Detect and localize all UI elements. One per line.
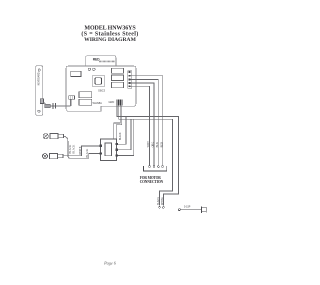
svg-text:WHITE: WHITE — [79, 146, 82, 155]
microcontroller U1 — [93, 75, 105, 87]
spark module M1 — [101, 139, 117, 161]
motor wire 1 — [131, 76, 163, 166]
connector J3 (board right) — [128, 71, 132, 88]
svg-text:WHN8A: WHN8A — [93, 101, 103, 105]
spark module wire B (from J2) — [116, 106, 122, 139]
relay K3 — [79, 99, 92, 105]
svg-text:GRD: GRD — [109, 100, 115, 104]
svg-text:BLACK: BLACK — [157, 197, 160, 205]
motor wire terminals — [149, 166, 164, 168]
module output wire 3 — [118, 119, 134, 155]
svg-text:5-15P: 5-15P — [184, 206, 191, 209]
inline cable connector — [45, 104, 50, 108]
svg-text:BLACK: BLACK — [73, 145, 76, 154]
power wire white — [119, 106, 173, 206]
svg-text:ORG: ORG — [152, 142, 155, 148]
svg-text:KEYBOARD: KEYBOARD — [38, 72, 41, 85]
svg-text:RED: RED — [160, 142, 163, 147]
igniter I1 boot — [50, 134, 58, 139]
svg-text:GBC3: GBC3 — [98, 89, 106, 93]
svg-text:WIRING DIAGRAM: WIRING DIAGRAM — [84, 37, 136, 43]
relay bank K4 — [111, 68, 123, 73]
mounting hole pair — [88, 68, 90, 70]
igniter I2 boot — [49, 154, 57, 159]
module right pin 1 — [115, 143, 117, 145]
svg-text:Page 6: Page 6 — [103, 261, 117, 266]
svg-text:BLK: BLK — [156, 142, 159, 147]
igniter I2 — [42, 154, 47, 159]
power plug symbol — [178, 206, 206, 212]
module output wire 2 — [118, 119, 131, 150]
relay K1 — [71, 71, 82, 77]
panel connector P1 — [40, 99, 43, 104]
module right pin 2 — [115, 149, 117, 151]
relay bank K6 — [111, 82, 123, 88]
motor wire labels — [147, 141, 163, 147]
title: model heading — [81, 25, 138, 43]
board-side cable plug — [69, 96, 75, 99]
svg-text:BLACK: BLACK — [86, 149, 89, 158]
motor wire 2 — [131, 79, 159, 165]
igniter I1 wire — [63, 136, 99, 158]
svg-text:WHT: WHT — [147, 141, 150, 147]
control panel (membrane keypad) — [36, 66, 43, 116]
motor wire 4 — [131, 86, 150, 165]
svg-text:CONNECTION: CONNECTION — [140, 180, 164, 184]
connector J2 (board bottom) — [117, 99, 122, 105]
power wire terminals — [159, 206, 161, 208]
tab connector finger hatch — [99, 60, 115, 62]
module output wire 1 — [118, 117, 126, 145]
svg-text:WHITE: WHITE — [161, 197, 164, 205]
module right pin 3 — [115, 154, 117, 156]
igniter I1 — [43, 134, 48, 139]
motor wire 3 — [131, 83, 154, 166]
panel ribbon cable wire — [43, 99, 70, 106]
spark module wire A (from J2) — [114, 106, 121, 139]
board top tab — [86, 56, 116, 66]
igniter I2 wire — [63, 146, 100, 156]
spark module core — [105, 143, 112, 156]
motor bracket — [143, 166, 166, 171]
control board A1 outline — [66, 66, 136, 111]
svg-text:BLACK: BLACK — [119, 132, 122, 140]
label FOR MOTOR CONNECTION — [140, 176, 164, 184]
relay K2 — [79, 92, 92, 98]
module left pin 1 — [99, 145, 101, 147]
module left pin 2 — [99, 152, 101, 154]
relay bank K5 — [111, 75, 123, 81]
igniter wire labels — [69, 145, 89, 158]
power wire black — [117, 106, 178, 206]
